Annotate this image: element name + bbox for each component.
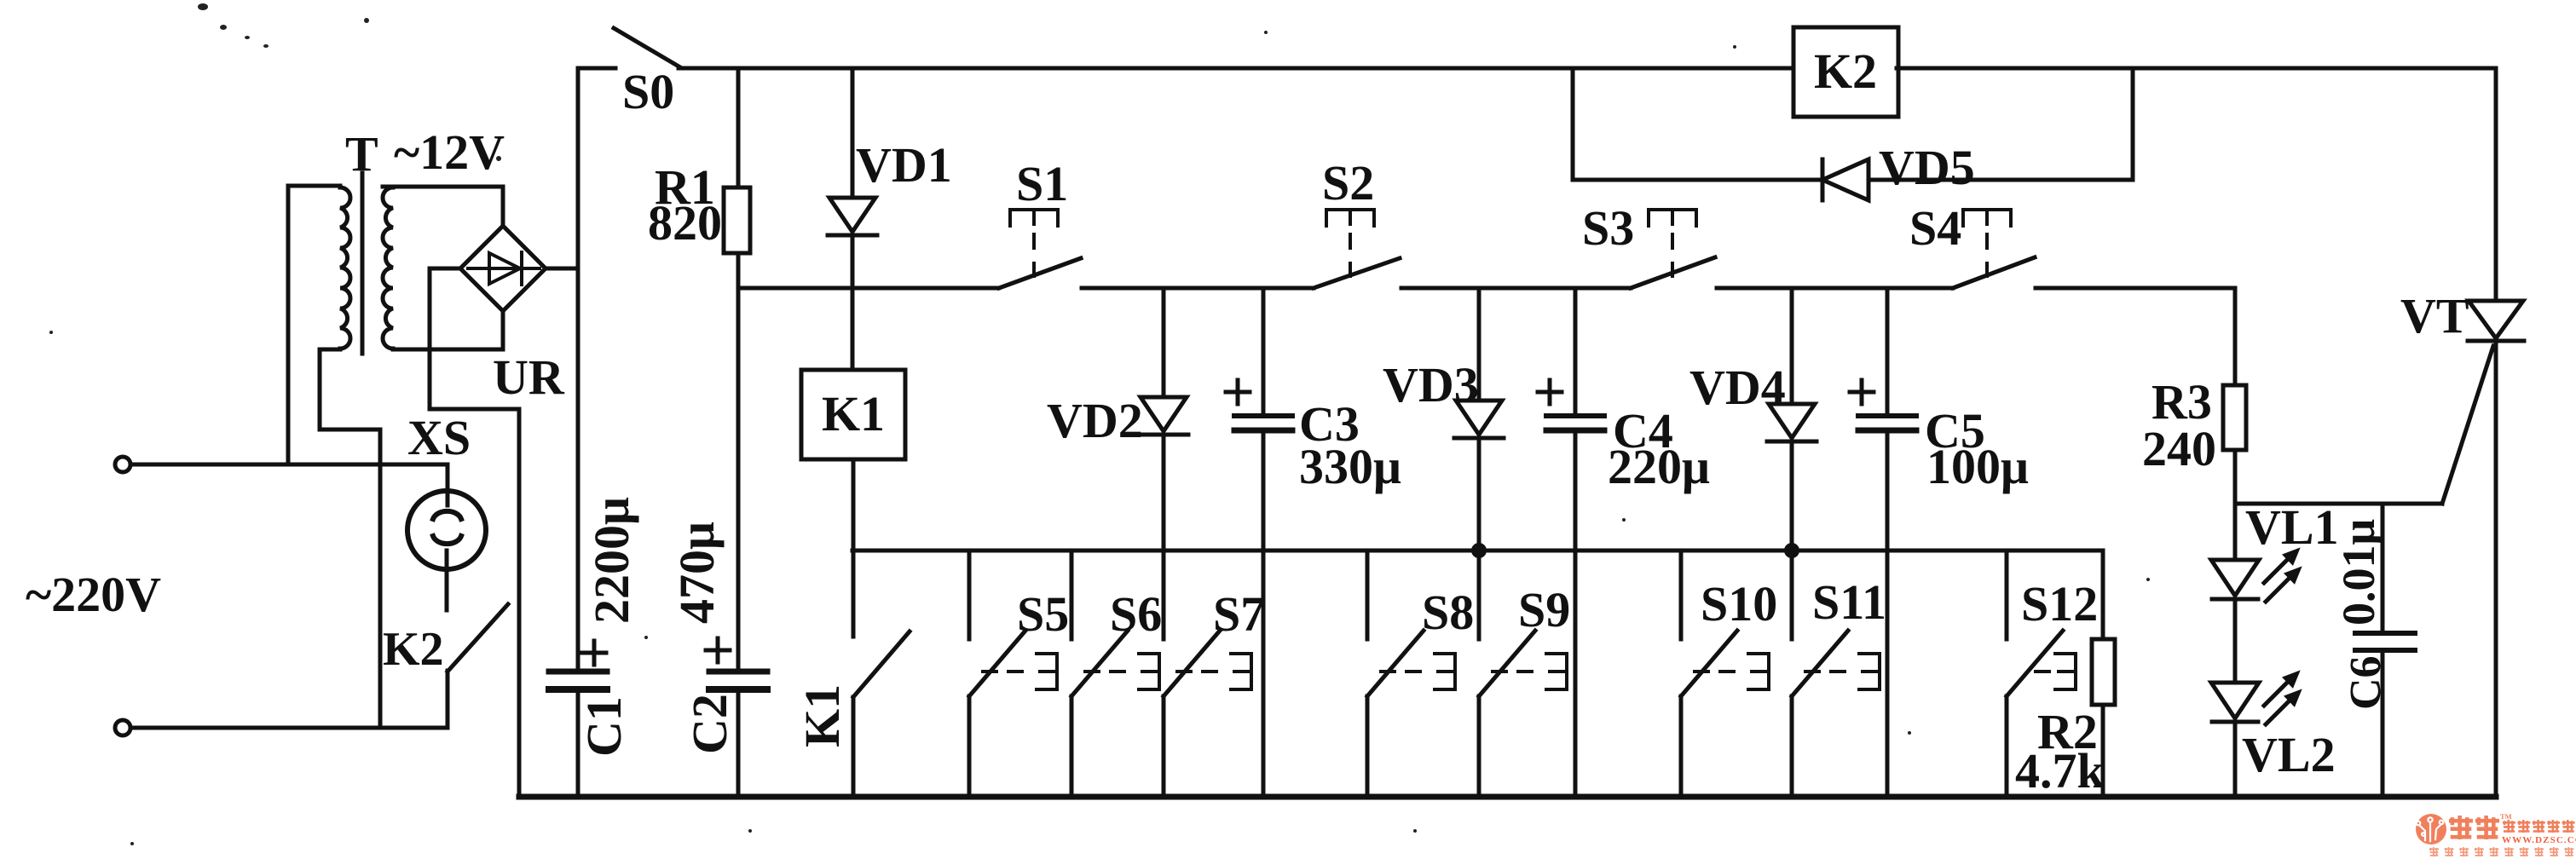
- svg-text:TM: TM: [2500, 812, 2512, 821]
- svg-text:820: 820: [648, 195, 722, 251]
- svg-text:S4: S4: [1909, 200, 1961, 256]
- svg-text:XS: XS: [407, 410, 471, 465]
- svg-text:220μ: 220μ: [1608, 439, 1710, 494]
- svg-text:S7: S7: [1213, 586, 1265, 642]
- svg-text:S3: S3: [1582, 200, 1634, 256]
- svg-text:S5: S5: [1017, 586, 1069, 642]
- svg-text:K2: K2: [1814, 43, 1877, 99]
- svg-text:VD3: VD3: [1383, 357, 1479, 412]
- svg-text:C6: C6: [2342, 655, 2390, 710]
- svg-text:S11: S11: [1812, 574, 1886, 630]
- svg-text:4.7k: 4.7k: [2015, 743, 2105, 798]
- svg-text:S10: S10: [1701, 576, 1777, 631]
- svg-text:S1: S1: [1016, 156, 1068, 211]
- svg-text:K1: K1: [822, 386, 885, 441]
- svg-text:0.01μ: 0.01μ: [2333, 519, 2384, 626]
- svg-text:~220V: ~220V: [26, 567, 161, 622]
- svg-text:330μ: 330μ: [1299, 439, 1401, 494]
- svg-text:470μ: 470μ: [669, 522, 725, 624]
- svg-text:VD1: VD1: [856, 137, 952, 193]
- svg-text:2200μ: 2200μ: [584, 497, 639, 624]
- svg-text:UR: UR: [493, 349, 565, 405]
- svg-text:VD5: VD5: [1879, 140, 1975, 195]
- svg-text:VT: VT: [2400, 288, 2469, 343]
- svg-text:S0: S0: [622, 64, 674, 119]
- svg-text:240: 240: [2142, 421, 2216, 476]
- svg-text:S12: S12: [2021, 576, 2098, 631]
- svg-text:100μ: 100μ: [1926, 439, 2029, 494]
- svg-text:T: T: [345, 126, 378, 182]
- svg-text:VD4: VD4: [1689, 360, 1786, 415]
- svg-text:S9: S9: [1518, 582, 1570, 637]
- svg-text:S8: S8: [1422, 585, 1474, 640]
- svg-text:~12V: ~12V: [394, 124, 505, 180]
- svg-text:VL2: VL2: [2242, 727, 2336, 782]
- svg-text:WWW.DZSC.COM: WWW.DZSC.COM: [2502, 835, 2576, 845]
- svg-text:C2: C2: [682, 694, 737, 754]
- svg-text:S6: S6: [1110, 586, 1162, 642]
- svg-text:K1: K1: [794, 684, 850, 747]
- svg-text:VD2: VD2: [1047, 393, 1143, 448]
- svg-text:K2: K2: [383, 623, 444, 676]
- svg-text:VL1: VL1: [2245, 499, 2339, 555]
- svg-text:C1: C1: [576, 696, 632, 757]
- svg-text:S2: S2: [1322, 155, 1374, 210]
